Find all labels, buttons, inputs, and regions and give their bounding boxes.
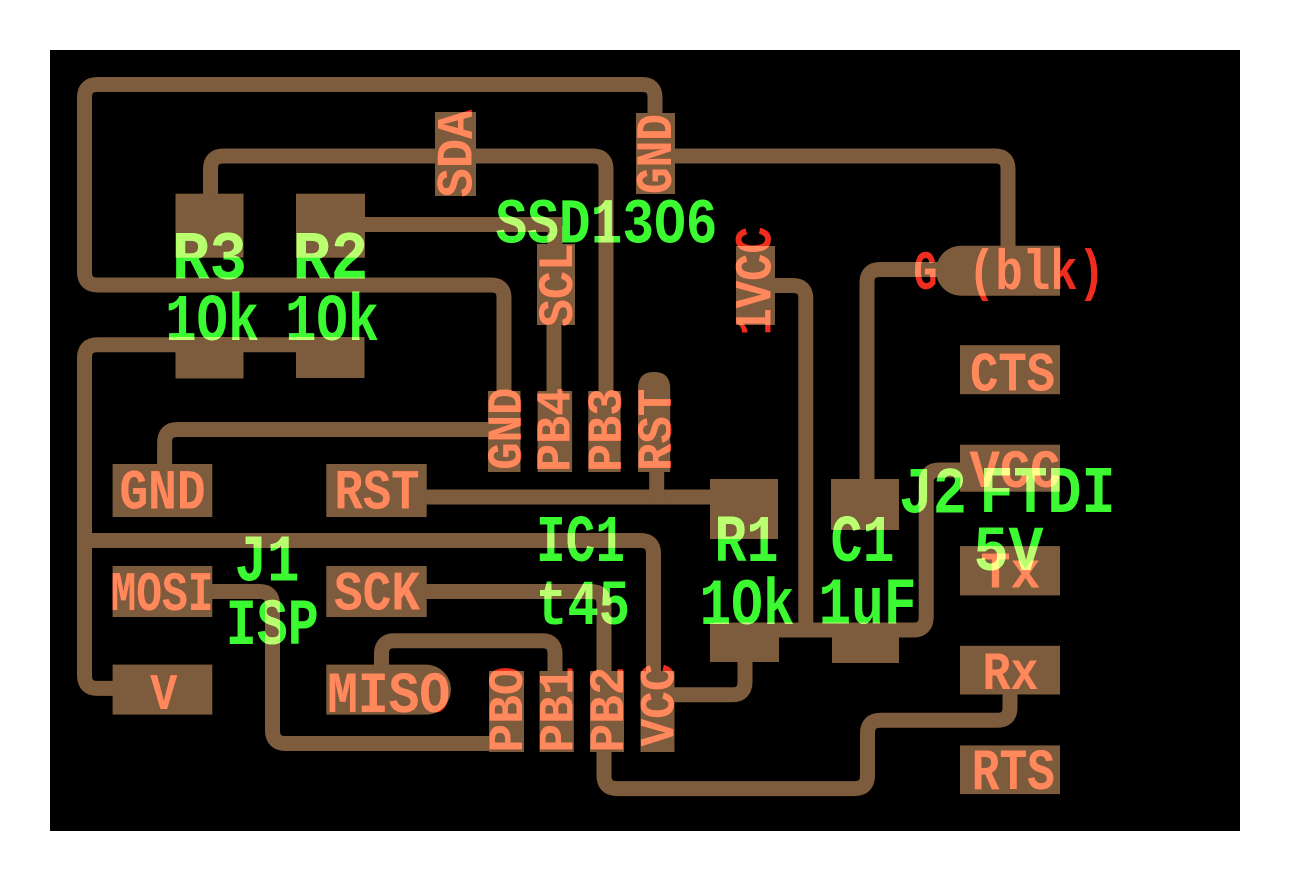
wire SCL stub into SCL pad xyxy=(548,226,563,252)
connector J2 pad Tx xyxy=(960,546,1060,595)
wire SCK net: J1 SCK pad to IC1 PB2 pad xyxy=(415,592,604,676)
svg-text:1VCC: 1VCC xyxy=(729,227,787,336)
connector J1 pad SCK xyxy=(326,566,426,617)
svg-text:MOSI: MOSI xyxy=(111,564,214,627)
wire VCC: 1VCC pad right and down xyxy=(757,286,806,633)
wire SDA net: R3 top pad up, right, down to IC1 PB3 pad xyxy=(211,156,607,425)
wire Tx net: IC1 PB2 pad down, right, up to J2 Rx pad xyxy=(604,688,1010,789)
wire VCC row: left rail to IC1 VCC pad xyxy=(85,541,654,676)
svg-text:V: V xyxy=(150,668,178,725)
wire GND: J1 GND pad up and right to IC1 GND pad xyxy=(165,430,495,476)
svg-text:VCC: VCC xyxy=(633,664,689,747)
op IC1 pad VCC (pin 8) xyxy=(641,671,675,752)
svg-text:MISO: MISO xyxy=(327,665,450,730)
pad SCL (SSD1306 header) xyxy=(537,244,575,325)
op IC1 pad PB3 (pin 2) xyxy=(588,391,620,472)
svg-text:SSD13O6: SSD13O6 xyxy=(496,191,718,263)
connector J1 pad MOSI xyxy=(113,566,213,617)
resistor R3 bottom pad xyxy=(176,337,244,379)
wire GND right: SSD1306 GND pad to J2 G pad xyxy=(650,156,1008,265)
connector J2 pad CTS xyxy=(960,345,1060,394)
svg-text:RTS: RTS xyxy=(972,742,1055,807)
resistor R1 top pad xyxy=(710,479,778,539)
wire RST stub: IC1 RST pad down to RST net xyxy=(649,470,664,502)
wire G net: J2 G pad left and down to C1 top pad xyxy=(867,270,958,496)
svg-text:(blk): (blk) xyxy=(968,243,1105,307)
svg-text:ISP: ISP xyxy=(226,589,319,664)
svg-text:1Ok: 1Ok xyxy=(165,285,259,361)
wire R1 bottom to IC1 VCC pad xyxy=(668,652,745,695)
svg-text:RST: RST xyxy=(630,389,686,471)
connector J1 pad RST xyxy=(326,464,426,517)
connector J1 pad MISO (pin 1, rounded right end) xyxy=(326,665,451,715)
wire RST net: J1 RST pad to R1 top pad xyxy=(408,490,718,505)
op IC1 pad RST (pin 1, rounded top) xyxy=(638,372,670,472)
svg-text:PB2: PB2 xyxy=(582,667,638,753)
svg-text:GND: GND xyxy=(120,463,206,527)
wire MOSI net: J1 MOSI pad down and right to IC1 PB0 pad xyxy=(205,592,505,744)
connector J2 pad Rx xyxy=(960,646,1060,695)
svg-text:G: G xyxy=(914,243,938,306)
resistor R2 bottom pad xyxy=(296,337,365,378)
wire MISO net: J1 MISO pad up and right to IC1 PB1 pad xyxy=(382,641,556,675)
capacitor C1 top pad xyxy=(831,479,899,530)
connector J1 pad V xyxy=(113,665,213,715)
svg-text:SDA: SDA xyxy=(431,109,488,198)
op IC1 pad GND (pin 4) xyxy=(488,391,521,472)
svg-text:CTS: CTS xyxy=(970,344,1055,407)
svg-text:Rx: Rx xyxy=(983,645,1039,706)
svg-text:PB3: PB3 xyxy=(580,388,636,472)
wire SCL net: R2 top pad to SCL pad xyxy=(340,217,562,232)
pad 1VCC (SSD1306 header) xyxy=(736,246,775,325)
capacitor C1 bottom pad xyxy=(832,623,899,663)
svg-text:J2: J2 xyxy=(899,458,967,533)
wire V net: R3/R2 bottom pads, left rail down, into J1 V pad xyxy=(85,345,359,689)
wire GND loop: IC1-GND up, left rail, top rail, down to SSD1306 GND pad xyxy=(85,85,656,426)
op IC1 pad PB4 (pin 3) xyxy=(538,391,573,472)
pad GND (SSD1306 header) xyxy=(636,113,675,194)
svg-text:PBO: PBO xyxy=(481,667,537,753)
pad SDA (SSD1306 header) xyxy=(435,112,476,196)
connector J2 pad G blk (rounded left end) xyxy=(936,246,1060,296)
op IC1 pad PB0 (pin 5) xyxy=(489,671,524,752)
op IC1 pad PB1 (pin 6) xyxy=(540,671,574,752)
resistor R3 top pad xyxy=(176,194,244,258)
svg-text:1uF: 1uF xyxy=(819,569,917,645)
wire SCL pad down to IC1 PB4 pad xyxy=(547,300,562,430)
resistor R2 top pad xyxy=(296,194,365,258)
svg-text:RST: RST xyxy=(335,463,420,527)
svg-text:IC1: IC1 xyxy=(536,506,625,582)
connector J2 pad VCC xyxy=(960,445,1060,492)
wire VCC band: R1/C1 bottom pads up to J2 VCC pad xyxy=(714,470,962,630)
svg-text:5V: 5V xyxy=(974,518,1044,590)
svg-text:SCK: SCK xyxy=(334,564,421,627)
svg-text:PB1: PB1 xyxy=(532,667,588,753)
resistor R1 bottom pad xyxy=(710,623,779,662)
svg-text:1Ok: 1Ok xyxy=(700,569,795,644)
svg-text:1Ok: 1Ok xyxy=(285,285,379,361)
connector J2 pad RTS xyxy=(960,745,1060,794)
connector J1 pad GND xyxy=(113,464,213,517)
svg-text:t45: t45 xyxy=(536,572,630,644)
svg-text:PB4: PB4 xyxy=(529,388,585,472)
svg-text:GND: GND xyxy=(630,114,687,194)
op IC1 pad PB2 (pin 7) xyxy=(590,671,624,752)
